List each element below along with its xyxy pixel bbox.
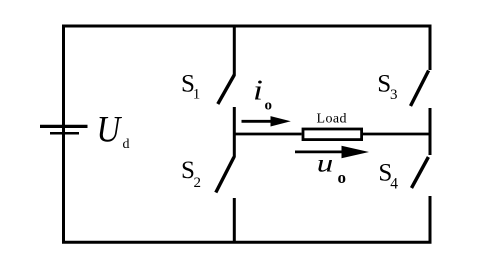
svg-text:o: o	[265, 98, 273, 114]
svg-text:d: d	[123, 137, 130, 152]
svg-text:2: 2	[194, 175, 202, 191]
svg-text:Load: Load	[317, 111, 347, 126]
svg-text:4: 4	[390, 176, 398, 193]
svg-text:o: o	[338, 168, 347, 187]
svg-text:i: i	[253, 74, 263, 106]
svg-text:u: u	[317, 150, 334, 177]
svg-text:U: U	[97, 109, 123, 150]
svg-text:3: 3	[390, 87, 398, 103]
svg-text:1: 1	[193, 87, 201, 103]
